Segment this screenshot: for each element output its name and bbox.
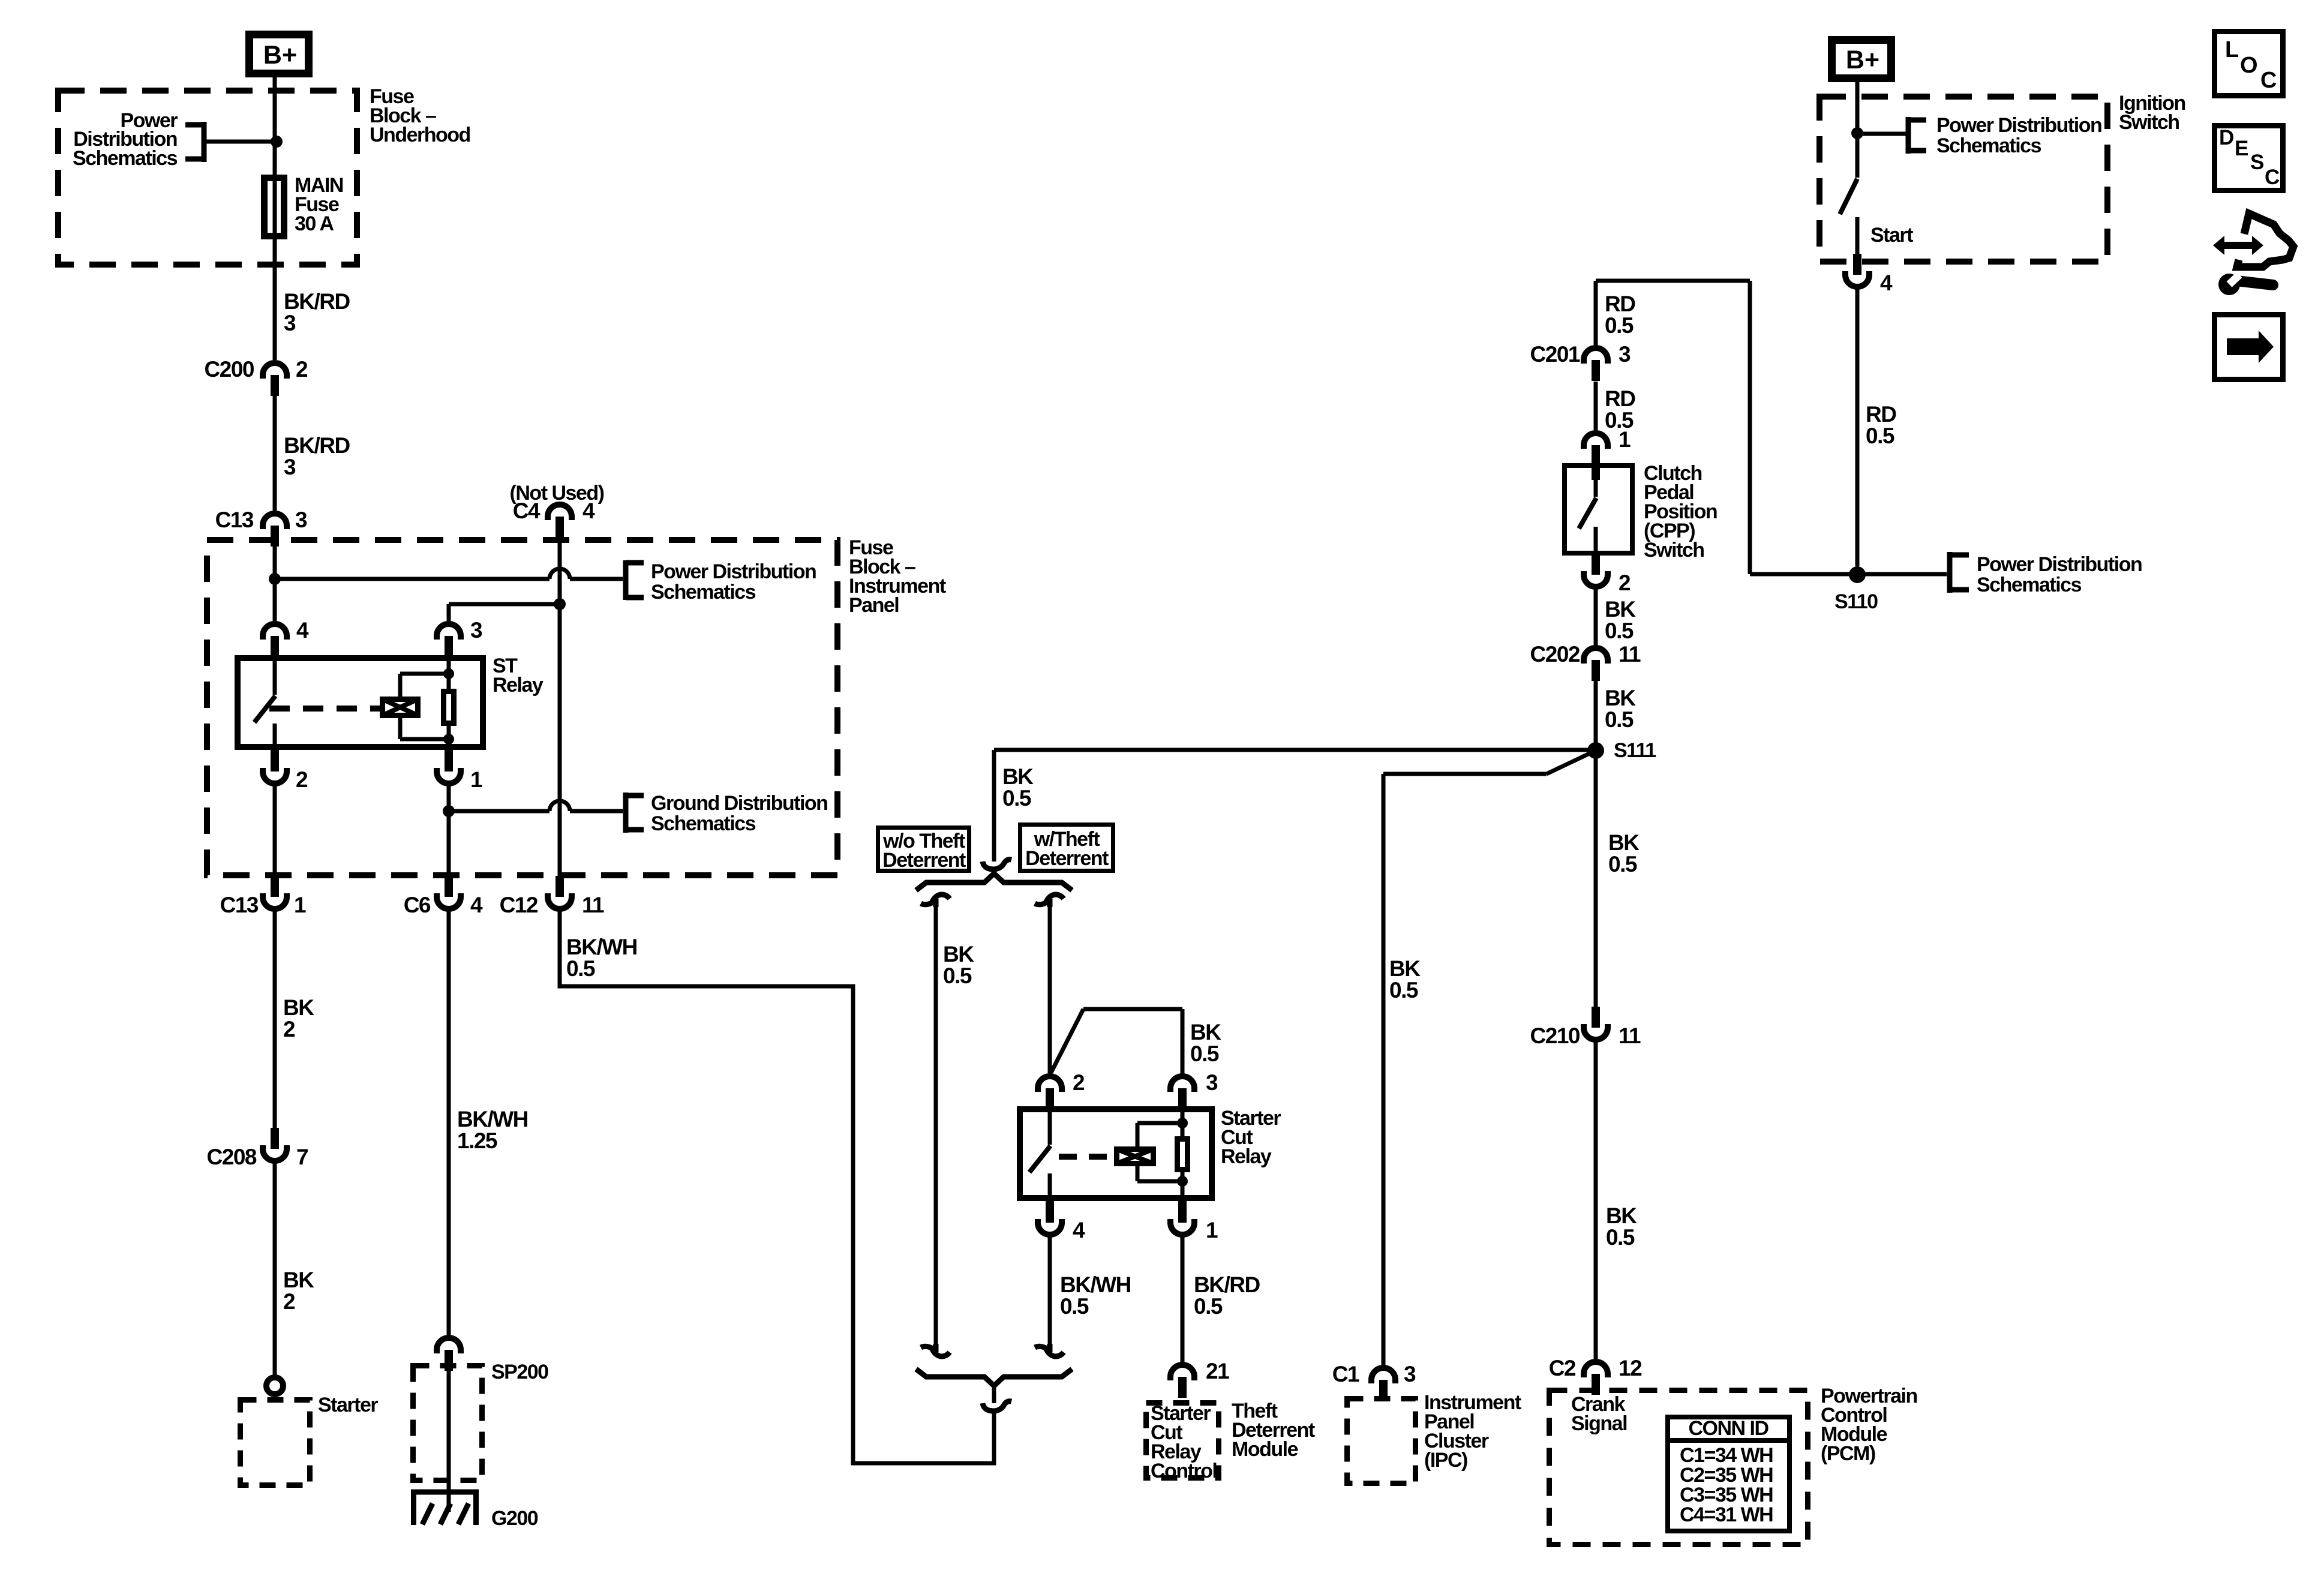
svg-text:O: O	[2240, 53, 2258, 78]
svg-text:0.5: 0.5	[1608, 852, 1637, 876]
svg-text:0.5: 0.5	[1190, 1041, 1219, 1066]
svg-text:0.5: 0.5	[1002, 786, 1031, 810]
svg-text:Starter: Starter	[318, 1394, 378, 1416]
svg-text:2: 2	[296, 357, 308, 382]
svg-text:Schematics: Schematics	[651, 581, 756, 604]
svg-text:C12: C12	[500, 893, 538, 917]
svg-text:Power Distribution: Power Distribution	[1977, 553, 2142, 576]
svg-text:3: 3	[295, 508, 307, 532]
svg-text:BK: BK	[1002, 764, 1034, 789]
svg-text:11: 11	[1619, 1023, 1641, 1048]
svg-text:L: L	[2225, 37, 2239, 62]
svg-text:B+: B+	[263, 41, 297, 70]
svg-text:2: 2	[283, 1289, 295, 1314]
svg-text:B+: B+	[1846, 46, 1879, 74]
svg-text:0.5: 0.5	[1605, 707, 1634, 732]
svg-text:Schematics: Schematics	[651, 812, 756, 835]
svg-text:Relay: Relay	[493, 674, 544, 697]
svg-text:2: 2	[1619, 571, 1631, 595]
svg-text:Deterrent: Deterrent	[1025, 847, 1109, 870]
svg-text:11: 11	[582, 893, 604, 917]
svg-text:21: 21	[1206, 1359, 1229, 1383]
svg-text:1: 1	[470, 767, 482, 792]
svg-text:(IPC): (IPC)	[1424, 1449, 1467, 1472]
svg-text:BK/RD: BK/RD	[284, 433, 350, 458]
svg-text:3: 3	[284, 311, 296, 335]
svg-text:G200: G200	[491, 1507, 538, 1530]
svg-text:BK: BK	[943, 942, 974, 966]
svg-text:RD: RD	[1605, 292, 1635, 316]
svg-text:Start: Start	[1870, 224, 1913, 247]
svg-text:1.25: 1.25	[457, 1128, 497, 1153]
svg-text:3: 3	[1206, 1070, 1218, 1095]
svg-text:0.5: 0.5	[1060, 1294, 1089, 1319]
svg-text:11: 11	[1619, 642, 1641, 667]
svg-text:D: D	[2219, 126, 2234, 149]
svg-text:C13: C13	[220, 893, 259, 917]
svg-text:1: 1	[1619, 427, 1631, 452]
svg-text:0.5: 0.5	[566, 956, 595, 981]
svg-text:BK: BK	[1190, 1020, 1221, 1044]
svg-text:Relay: Relay	[1221, 1145, 1272, 1168]
svg-text:Deterrent: Deterrent	[882, 849, 966, 872]
svg-text:4: 4	[1880, 271, 1893, 295]
svg-text:Switch: Switch	[2119, 111, 2179, 134]
svg-text:Power Distribution: Power Distribution	[1936, 114, 2101, 137]
svg-text:E: E	[2235, 137, 2248, 160]
svg-text:C2: C2	[1549, 1356, 1576, 1380]
svg-text:C202: C202	[1530, 642, 1580, 667]
svg-text:0.5: 0.5	[1389, 978, 1418, 1002]
svg-text:4: 4	[470, 893, 483, 917]
svg-text:3: 3	[1619, 342, 1631, 367]
svg-text:0.5: 0.5	[943, 963, 972, 988]
svg-text:0.5: 0.5	[1866, 424, 1894, 448]
svg-text:BK: BK	[1605, 597, 1636, 622]
svg-text:7: 7	[296, 1145, 308, 1169]
svg-text:Signal: Signal	[1571, 1412, 1627, 1435]
svg-text:RD: RD	[1605, 386, 1635, 411]
svg-text:C200: C200	[205, 357, 254, 382]
svg-text:Schematics: Schematics	[1977, 574, 2082, 596]
svg-text:C1: C1	[1332, 1362, 1359, 1386]
svg-text:C4=31 WH: C4=31 WH	[1680, 1503, 1773, 1526]
svg-text:0.5: 0.5	[1194, 1294, 1223, 1319]
svg-text:C208: C208	[207, 1145, 257, 1169]
svg-text:3: 3	[284, 455, 296, 479]
svg-text:Power Distribution: Power Distribution	[651, 560, 816, 583]
svg-text:C: C	[2265, 166, 2280, 189]
svg-text:0.5: 0.5	[1606, 1225, 1635, 1250]
svg-text:BK/WH: BK/WH	[566, 935, 637, 959]
svg-text:(PCM): (PCM)	[1821, 1442, 1875, 1465]
svg-text:Ground Distribution: Ground Distribution	[651, 792, 827, 815]
svg-text:C: C	[2260, 68, 2277, 93]
svg-text:2: 2	[283, 1017, 295, 1041]
svg-text:Schematics: Schematics	[1936, 134, 2041, 157]
svg-text:2: 2	[296, 767, 308, 792]
svg-text:1: 1	[1206, 1218, 1218, 1242]
svg-text:4: 4	[582, 499, 595, 523]
svg-text:BK/WH: BK/WH	[457, 1107, 528, 1131]
svg-text:C4: C4	[513, 499, 541, 523]
svg-text:C210: C210	[1530, 1023, 1580, 1048]
svg-text:S111: S111	[1614, 739, 1656, 762]
svg-text:C201: C201	[1530, 342, 1580, 367]
svg-text:0.5: 0.5	[1605, 313, 1634, 338]
svg-text:2: 2	[1073, 1070, 1085, 1095]
svg-text:3: 3	[470, 618, 482, 643]
svg-text:BK: BK	[1605, 686, 1636, 710]
svg-text:Switch: Switch	[1644, 539, 1704, 562]
svg-text:BK/RD: BK/RD	[1194, 1272, 1260, 1297]
svg-text:Control: Control	[1151, 1460, 1217, 1482]
svg-text:12: 12	[1619, 1356, 1642, 1380]
svg-text:CONN ID: CONN ID	[1688, 1417, 1768, 1440]
svg-text:Underhood: Underhood	[370, 124, 470, 146]
svg-text:1: 1	[294, 893, 306, 917]
svg-text:3: 3	[1404, 1362, 1416, 1386]
svg-text:0.5: 0.5	[1605, 619, 1634, 643]
svg-text:S: S	[2250, 151, 2264, 174]
svg-text:SP200: SP200	[491, 1361, 548, 1383]
svg-text:Module: Module	[1232, 1438, 1298, 1461]
svg-text:C13: C13	[215, 508, 254, 532]
svg-text:4: 4	[1073, 1218, 1085, 1242]
svg-text:BK: BK	[283, 995, 314, 1020]
svg-text:4: 4	[296, 618, 309, 643]
svg-text:BK: BK	[1608, 830, 1640, 855]
svg-text:C6: C6	[404, 893, 431, 917]
svg-text:30 A: 30 A	[295, 212, 334, 235]
svg-text:BK: BK	[1606, 1203, 1637, 1228]
svg-text:BK/RD: BK/RD	[284, 289, 350, 314]
svg-text:BK: BK	[1389, 956, 1421, 981]
svg-text:Schematics: Schematics	[73, 147, 178, 170]
svg-text:Panel: Panel	[849, 594, 899, 617]
svg-text:BK: BK	[283, 1268, 314, 1292]
svg-text:S110: S110	[1834, 590, 1878, 613]
svg-text:RD: RD	[1866, 402, 1896, 427]
svg-text:BK/WH: BK/WH	[1060, 1272, 1131, 1297]
